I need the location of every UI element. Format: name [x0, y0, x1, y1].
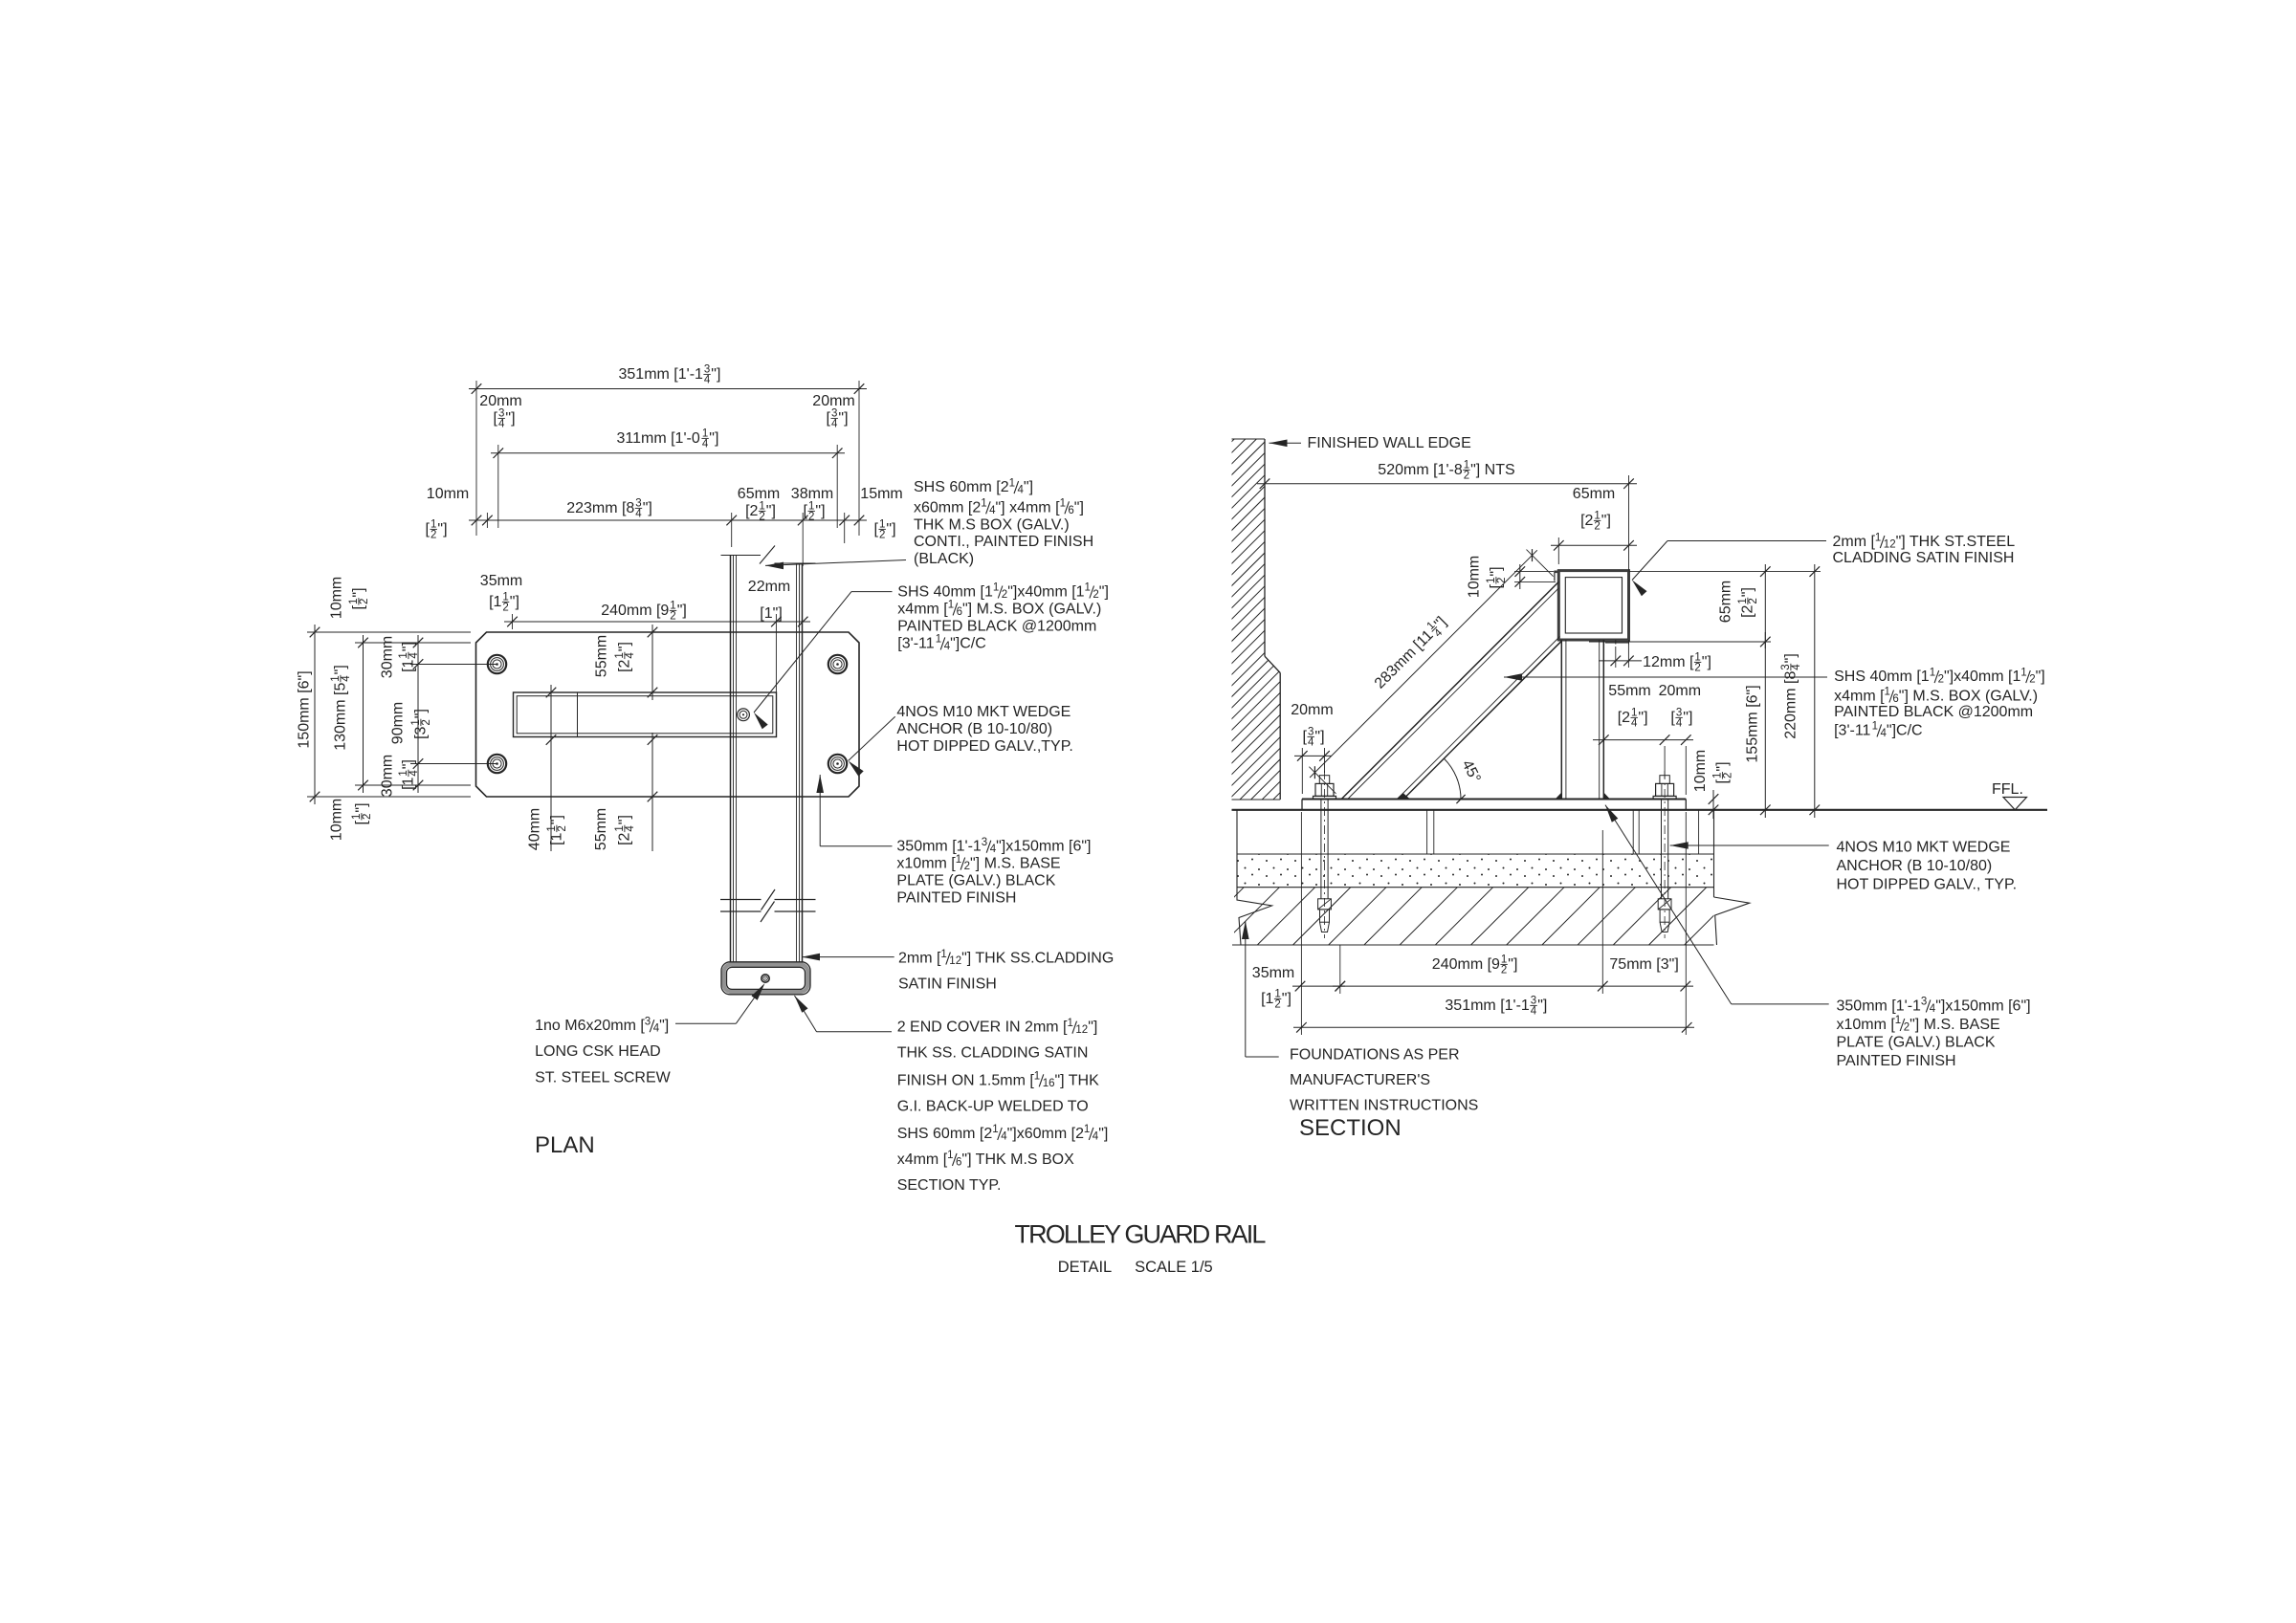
svg-text:PAINTED BLACK @1200mm: PAINTED BLACK @1200mm	[1834, 704, 2033, 720]
floor screed layer (section)	[1237, 810, 1714, 854]
svg-text:[: [	[351, 605, 367, 610]
PLAN title	[535, 1132, 595, 1158]
svg-text:90mm: 90mm	[390, 702, 407, 744]
svg-text:10mm: 10mm	[329, 577, 345, 619]
svg-text:1: 1	[1895, 1015, 1901, 1026]
svg-text:[: [	[1303, 729, 1308, 745]
weld fillet brace base	[1397, 793, 1411, 800]
svg-text:[1: [1	[549, 832, 565, 844]
label 30mm top (plan left)	[380, 636, 421, 678]
svg-text:[1: [1	[401, 777, 417, 789]
svg-text:SECTION: SECTION	[1299, 1115, 1402, 1141]
svg-text:1: 1	[956, 854, 961, 866]
dim 55/20 (section)	[1593, 683, 1701, 795]
svg-text:20mm: 20mm	[1659, 683, 1701, 699]
svg-text:FOUNDATIONS AS PER: FOUNDATIONS AS PER	[1290, 1047, 1460, 1064]
svg-text:4: 4	[704, 375, 711, 386]
svg-text:[: [	[426, 521, 430, 537]
svg-text:SCALE 1/5: SCALE 1/5	[1135, 1259, 1213, 1276]
svg-text:4: 4	[408, 652, 420, 659]
leader SHS40 (plan)	[754, 592, 893, 730]
svg-text:"] M.S. BOX (GALV.): "] M.S. BOX (GALV.)	[1899, 689, 2038, 705]
svg-text:[: [	[804, 503, 808, 519]
svg-text:[2: [2	[617, 832, 633, 844]
svg-text:[: [	[1714, 779, 1731, 784]
svg-text:HOT DIPPED GALV.,TYP.: HOT DIPPED GALV.,TYP.	[896, 738, 1072, 755]
anchor bolt plan bottom-right	[828, 755, 847, 773]
svg-text:2: 2	[1723, 773, 1734, 779]
svg-text:2: 2	[421, 719, 432, 725]
svg-text:"]: "]	[643, 500, 652, 516]
label 10mm top (plan left)	[329, 577, 371, 619]
label 65mm (plan)	[738, 486, 780, 523]
svg-text:SHS 40mm [1: SHS 40mm [1	[1834, 669, 1930, 685]
screw on brace (plan)	[738, 709, 750, 721]
dim chain 10/223/65/38/15 (plan)	[469, 513, 867, 566]
svg-text:35mm: 35mm	[1252, 965, 1294, 981]
svg-text:"]: "]	[549, 815, 565, 824]
svg-text:[3: [3	[413, 726, 430, 738]
text base plate block (plan)	[896, 837, 1091, 907]
svg-text:ANCHOR (B 10-10/80): ANCHOR (B 10-10/80)	[1837, 858, 1993, 874]
svg-text:20mm: 20mm	[812, 393, 854, 409]
dim 240mm / 22mm line (plan)	[504, 614, 810, 692]
dim 130mm (plan left)	[330, 635, 471, 793]
svg-text:"]: "]	[677, 603, 687, 619]
svg-text:"]: "]	[1537, 998, 1547, 1014]
svg-text:"]: "]	[617, 815, 633, 824]
dim 40mm (plan slot)	[527, 685, 569, 851]
svg-text:"]x150mm [6"]: "]x150mm [6"]	[1935, 998, 2030, 1014]
svg-text:[3'-11: [3'-11	[1834, 722, 1870, 738]
cladding bottom piece (section)	[1605, 640, 1629, 645]
dim 520mm (section)	[1257, 460, 1637, 571]
svg-text:4: 4	[635, 509, 642, 520]
svg-text:[2: [2	[617, 659, 633, 671]
svg-text:1: 1	[936, 634, 941, 646]
svg-text:"]: "]	[333, 665, 349, 674]
svg-text:[1: [1	[489, 594, 501, 610]
text end cover block (plan)	[897, 1018, 1109, 1194]
base plate (plan)	[476, 632, 860, 797]
end cover (plan)	[721, 962, 810, 995]
svg-text:3: 3	[1921, 997, 1927, 1008]
svg-text:CONTI., PAINTED FINISH: CONTI., PAINTED FINISH	[914, 534, 1093, 550]
svg-text:"]: "]	[413, 709, 430, 718]
svg-text:THK M.S BOX (GALV.): THK M.S BOX (GALV.)	[914, 516, 1070, 533]
svg-text:"]: "]	[617, 642, 633, 651]
svg-text:[2: [2	[745, 503, 758, 519]
svg-text:HOT DIPPED GALV., TYP.: HOT DIPPED GALV., TYP.	[1837, 877, 2018, 893]
svg-text:4: 4	[702, 439, 709, 450]
concrete slab hatch (section)	[1151, 888, 1778, 945]
brace SHS40 diagonal (section)	[1341, 581, 1561, 799]
svg-text:12: 12	[1075, 1024, 1088, 1036]
screw on end cover (plan)	[762, 975, 769, 982]
svg-text:40mm: 40mm	[527, 808, 543, 850]
svg-text:[1: [1	[401, 659, 417, 671]
svg-text:"]: "]	[709, 430, 718, 447]
svg-text:"]: "]	[886, 521, 895, 537]
leader 4NOS anchor (section)	[1670, 842, 1829, 849]
svg-text:4: 4	[1308, 737, 1314, 749]
svg-text:"]: "]	[401, 642, 417, 651]
text base plate (section)	[1837, 997, 2031, 1069]
svg-text:ST. STEEL SCREW: ST. STEEL SCREW	[535, 1069, 672, 1086]
text SHS40 block (plan)	[897, 582, 1109, 652]
svg-text:"]: "]	[1314, 729, 1324, 745]
text 4NOS block (plan)	[896, 704, 1072, 755]
brace SHS40 in plan (slot)	[514, 692, 777, 737]
svg-text:30mm: 30mm	[380, 636, 396, 678]
svg-text:"]: "]	[1740, 587, 1756, 597]
svg-text:351mm [1'-1: 351mm [1'-1	[619, 366, 704, 383]
svg-text:20mm: 20mm	[1291, 702, 1333, 718]
label 38mm (plan)	[791, 486, 833, 523]
svg-text:351mm [1'-1: 351mm [1'-1	[1445, 998, 1530, 1014]
svg-text:240mm [9: 240mm [9	[601, 603, 669, 619]
svg-text:PLATE (GALV.) BLACK: PLATE (GALV.) BLACK	[896, 873, 1055, 889]
svg-text:"]: "]	[1024, 479, 1033, 495]
text SHS40 brace (section)	[1834, 667, 2045, 739]
label 240mm (plan)	[601, 601, 687, 623]
svg-text:SECTION TYP.: SECTION TYP.	[897, 1177, 1002, 1194]
svg-text:12: 12	[949, 955, 961, 967]
svg-text:15mm: 15mm	[860, 486, 902, 502]
text SS cladding block (plan)	[898, 949, 1114, 993]
svg-text:16: 16	[1043, 1078, 1055, 1089]
svg-text:2: 2	[430, 530, 436, 541]
svg-text:"]: "]	[505, 410, 515, 427]
label 22mm (plan)	[748, 579, 790, 622]
dim 10mm plate thk (section)	[1692, 750, 1734, 819]
svg-text:PAINTED FINISH: PAINTED FINISH	[896, 890, 1016, 907]
svg-text:1no M6x20mm [: 1no M6x20mm [	[535, 1018, 645, 1034]
dim 150mm (plan left)	[297, 625, 472, 804]
svg-text:SHS 60mm [2: SHS 60mm [2	[897, 1126, 993, 1142]
slab break left	[1237, 810, 1272, 945]
leader finished wall edge	[1269, 440, 1302, 448]
svg-text:SATIN FINISH: SATIN FINISH	[898, 976, 997, 993]
leader 4NOS anchors (plan)	[849, 716, 895, 776]
dim 65mm right (section)	[1589, 564, 1771, 648]
svg-text:2: 2	[1594, 521, 1600, 533]
svg-text:SHS 40mm [1: SHS 40mm [1	[897, 584, 993, 601]
dim 12mm step (section)	[1599, 644, 1711, 674]
svg-text:[2: [2	[1580, 513, 1593, 529]
floor bedding dotted layer (section)	[1237, 854, 1714, 888]
dim 283mm along brace	[1309, 549, 1553, 794]
FFL marker	[1992, 781, 2027, 810]
svg-text:1: 1	[1034, 1071, 1040, 1083]
svg-text:4: 4	[408, 770, 420, 777]
svg-text:1: 1	[1875, 532, 1881, 543]
svg-text:(BLACK): (BLACK)	[914, 551, 974, 567]
svg-text:[1: [1	[1261, 991, 1273, 1007]
svg-text:1: 1	[948, 600, 954, 611]
svg-text:38mm: 38mm	[791, 486, 833, 502]
svg-text:4: 4	[625, 825, 636, 832]
svg-text:"] M.S. BASE: "] M.S. BASE	[1910, 1017, 2000, 1033]
drawing title	[1015, 1220, 1267, 1249]
svg-text:2: 2	[1274, 999, 1280, 1011]
rail SHS60 with cladding (plan) left faces	[731, 556, 737, 963]
svg-text:G.I. BACK-UP WELDED TO: G.I. BACK-UP WELDED TO	[897, 1098, 1089, 1114]
svg-text:"]: "]	[437, 521, 447, 537]
svg-text:SHS 60mm [2: SHS 60mm [2	[914, 479, 1009, 495]
text finished wall edge	[1308, 435, 1471, 451]
svg-text:x10mm [: x10mm [	[896, 856, 956, 872]
svg-text:FFL.: FFL.	[1992, 781, 2023, 798]
svg-text:1: 1	[940, 949, 946, 960]
svg-text:"]: "]	[1099, 584, 1109, 601]
label 10mm (plan left)	[426, 486, 470, 541]
SECTION title	[1299, 1115, 1402, 1141]
svg-text:FINISH ON 1.5mm [: FINISH ON 1.5mm [	[897, 1072, 1035, 1088]
svg-text:2: 2	[670, 611, 675, 623]
svg-text:20mm: 20mm	[479, 393, 521, 409]
svg-text:LONG CSK HEAD: LONG CSK HEAD	[535, 1043, 661, 1060]
svg-text:"]: "]	[1074, 499, 1084, 515]
weld fillets post base	[1556, 793, 1610, 800]
wall outline (section)	[1232, 439, 1281, 800]
svg-text:223mm [8: 223mm [8	[566, 500, 634, 516]
svg-text:130mm [5: 130mm [5	[333, 683, 349, 751]
leader st steel cladding (section)	[1632, 541, 1826, 597]
dim 311mm (plan)	[491, 428, 845, 528]
label 15mm (plan right)	[860, 486, 902, 541]
svg-text:1: 1	[1885, 687, 1890, 698]
label 90mm (plan left)	[390, 702, 433, 744]
svg-text:"]: "]	[815, 503, 825, 519]
svg-text:"]C/C: "]C/C	[1887, 722, 1923, 738]
svg-text:x60mm [2: x60mm [2	[914, 499, 981, 515]
leader SHS40 brace (section)	[1504, 673, 1827, 681]
svg-text:1: 1	[1872, 721, 1878, 733]
svg-text:4: 4	[1631, 718, 1638, 730]
rail top break line (plan)	[721, 546, 816, 564]
svg-text:311mm [1'-0: 311mm [1'-0	[617, 430, 700, 447]
svg-text:2: 2	[1464, 471, 1469, 482]
svg-text:"]: "]	[510, 594, 519, 610]
svg-text:1: 1	[1068, 1018, 1073, 1029]
svg-text:1: 1	[993, 582, 999, 594]
label 35mm (plan)	[480, 573, 522, 614]
svg-text:10mm: 10mm	[427, 486, 469, 502]
svg-text:[: [	[1670, 710, 1675, 726]
svg-text:ANCHOR (B 10-10/80): ANCHOR (B 10-10/80)	[896, 721, 1052, 737]
dim 240mm (section)	[1333, 830, 1693, 994]
svg-text:[: [	[874, 521, 879, 537]
svg-text:"]x40mm [1: "]x40mm [1	[1944, 669, 2020, 685]
svg-text:220mm [8: 220mm [8	[1783, 671, 1799, 739]
svg-text:150mm [6"]: 150mm [6"]	[297, 670, 313, 748]
svg-text:"]: "]	[1508, 956, 1517, 973]
svg-text:10mm: 10mm	[1467, 556, 1483, 598]
svg-text:3: 3	[982, 837, 987, 848]
svg-text:2: 2	[1748, 598, 1759, 603]
svg-text:"] M.S. BASE: "] M.S. BASE	[970, 856, 1061, 872]
svg-text:"]: "]	[354, 802, 370, 812]
svg-text:"]x60mm [2: "]x60mm [2	[1007, 1126, 1084, 1142]
label 30mm bottom (plan left)	[380, 755, 421, 797]
text foundations (section)	[1290, 1047, 1478, 1114]
svg-text:35mm: 35mm	[480, 573, 522, 589]
svg-text:4: 4	[625, 652, 636, 659]
label 223mm (plan)	[566, 498, 652, 520]
svg-text:2: 2	[759, 512, 764, 523]
svg-text:PAINTED FINISH: PAINTED FINISH	[1837, 1053, 1956, 1069]
wedge anchor right (section)	[1653, 771, 1676, 938]
svg-text:"]: "]	[1088, 1020, 1097, 1036]
svg-text:"] THK SS.CLADDING: "] THK SS.CLADDING	[961, 951, 1114, 967]
svg-text:"] THK: "] THK	[1055, 1072, 1100, 1088]
slab break right	[1714, 810, 1750, 945]
svg-text:4: 4	[341, 675, 352, 682]
svg-text:"]: "]	[659, 1018, 669, 1034]
dim 35mm (section)	[1252, 965, 1345, 1011]
svg-text:"]: "]	[1714, 761, 1731, 771]
svg-text:155mm [6"]: 155mm [6"]	[1745, 685, 1761, 762]
text SHS60 block (plan)	[914, 477, 1093, 567]
leader base plate (section)	[1605, 805, 1829, 1004]
svg-text:"] NTS: "] NTS	[1470, 462, 1515, 478]
wedge anchor left (section)	[1314, 771, 1336, 938]
svg-text:65mm: 65mm	[738, 486, 780, 502]
svg-text:2: 2	[1496, 578, 1508, 583]
svg-text:"]x150mm [6"]: "]x150mm [6"]	[996, 839, 1091, 855]
svg-text:PAINTED BLACK @1200mm: PAINTED BLACK @1200mm	[897, 618, 1096, 634]
svg-text:"]: "]	[1702, 654, 1711, 670]
post SHS40 (section)	[1561, 640, 1603, 800]
svg-text:4: 4	[831, 419, 838, 430]
dim 20mm left (plan)	[479, 393, 521, 430]
svg-text:"]: "]	[401, 759, 417, 769]
svg-text:x4mm [: x4mm [	[897, 1151, 948, 1168]
anchor bolt plan bottom-left	[488, 755, 506, 773]
text st steel cladding (section)	[1833, 532, 2016, 566]
svg-text:65mm: 65mm	[1718, 581, 1734, 623]
svg-text:4NOS M10 MKT WEDGE: 4NOS M10 MKT WEDGE	[896, 704, 1071, 720]
svg-text:1: 1	[1060, 498, 1066, 510]
svg-text:"]: "]	[1683, 710, 1692, 726]
dim 20mm bolt offset (section)	[1291, 702, 1333, 794]
svg-text:2: 2	[557, 825, 568, 831]
svg-text:"]x40mm [1: "]x40mm [1	[1007, 584, 1084, 601]
anchor bolt plan top-right	[828, 655, 847, 673]
svg-text:2: 2	[879, 530, 885, 541]
svg-text:75mm [3"]: 75mm [3"]	[1609, 956, 1678, 973]
svg-text:"]: "]	[766, 503, 776, 519]
svg-text:1: 1	[1009, 477, 1015, 489]
svg-text:PLATE (GALV.) BLACK: PLATE (GALV.) BLACK	[1837, 1034, 1996, 1050]
svg-text:1: 1	[947, 1150, 953, 1161]
text M6 screw block (plan)	[535, 1016, 672, 1086]
svg-text:55mm: 55mm	[1608, 683, 1650, 699]
svg-text:"]: "]	[1638, 710, 1647, 726]
svg-text:"]: "]	[1282, 991, 1291, 1007]
svg-text:1: 1	[1085, 582, 1091, 594]
svg-text:FINISHED WALL EDGE: FINISHED WALL EDGE	[1308, 435, 1471, 451]
svg-text:MANUFACTURER'S: MANUFACTURER'S	[1290, 1072, 1430, 1088]
dim 351mm (section)	[1293, 812, 1694, 1035]
svg-text:12mm [: 12mm [	[1643, 654, 1694, 670]
svg-text:2mm [: 2mm [	[1833, 534, 1876, 550]
svg-text:[: [	[354, 821, 370, 825]
svg-text:1: 1	[981, 498, 986, 510]
svg-text:2: 2	[362, 814, 373, 820]
wall hatch lines	[850, 439, 1656, 801]
svg-text:2: 2	[1501, 965, 1507, 976]
svg-text:[2: [2	[1618, 710, 1630, 726]
svg-text:55mm: 55mm	[594, 635, 610, 677]
svg-text:"]: "]	[711, 366, 720, 383]
svg-text:[1"]: [1"]	[760, 605, 782, 622]
svg-text:10mm: 10mm	[1692, 750, 1709, 792]
svg-text:[: [	[1489, 584, 1505, 589]
svg-text:520mm [1'-8: 520mm [1'-8	[1378, 462, 1463, 478]
dim 220mm (section)	[1629, 564, 1821, 818]
dim 20mm right (plan)	[812, 393, 854, 430]
svg-text:"]: "]	[1783, 653, 1799, 663]
base plate (section)	[1302, 800, 1686, 810]
FFL line	[1232, 809, 2048, 811]
rail SHS60 cut square (section)	[1555, 571, 1629, 640]
svg-text:"] M.S. BOX (GALV.): "] M.S. BOX (GALV.)	[962, 601, 1101, 617]
svg-text:350mm [1'-1: 350mm [1'-1	[896, 839, 982, 855]
svg-text:PLAN: PLAN	[535, 1132, 595, 1158]
svg-text:CLADDING SATIN FINISH: CLADDING SATIN FINISH	[1833, 550, 2015, 566]
svg-text:[2: [2	[1740, 604, 1756, 617]
dim 155mm (section)	[1745, 632, 1771, 818]
dim 351mm (plan overall width)	[469, 364, 867, 536]
svg-text:"] THK M.S BOX: "] THK M.S BOX	[961, 1151, 1074, 1168]
dim 65mm top (section)	[1551, 486, 1637, 564]
rail SHS60 with cladding (plan) right faces	[797, 563, 803, 962]
leader end cover (plan)	[795, 996, 893, 1032]
label 10mm bottom (plan left)	[329, 799, 374, 841]
svg-text:30mm: 30mm	[380, 755, 396, 797]
svg-text:x4mm [: x4mm [	[1834, 689, 1885, 705]
svg-text:[3'-11: [3'-11	[897, 635, 934, 651]
svg-text:"] x4mm [: "] x4mm [	[996, 499, 1061, 515]
svg-text:"]: "]	[2036, 669, 2045, 685]
svg-text:"]: "]	[1489, 566, 1505, 576]
svg-text:3: 3	[645, 1016, 651, 1027]
dim 30/90/30 (plan left)	[410, 635, 497, 793]
svg-text:2: 2	[502, 603, 508, 614]
svg-text:12: 12	[1884, 539, 1896, 551]
svg-text:"]: "]	[838, 410, 848, 427]
svg-text:22mm: 22mm	[748, 579, 790, 595]
svg-text:DETAIL: DETAIL	[1058, 1259, 1113, 1276]
svg-text:55mm: 55mm	[593, 808, 609, 850]
leader base plate (plan)	[816, 775, 892, 846]
rail lower break (plan)	[720, 889, 816, 922]
anchor bolt plan top-left	[488, 655, 506, 673]
label 75mm (section)	[1609, 956, 1678, 973]
svg-text:"]: "]	[351, 587, 367, 597]
svg-text:4: 4	[1676, 718, 1683, 730]
svg-text:2: 2	[808, 512, 814, 523]
svg-text:1: 1	[1930, 667, 1935, 678]
svg-text:2 END COVER IN 2mm [: 2 END COVER IN 2mm [	[897, 1020, 1068, 1036]
svg-text:4: 4	[1791, 664, 1802, 670]
svg-text:1: 1	[2020, 667, 2026, 678]
svg-text:2mm [: 2mm [	[898, 951, 941, 967]
svg-text:4NOS M10 MKT WEDGE: 4NOS M10 MKT WEDGE	[1837, 840, 2011, 856]
svg-text:2: 2	[1694, 663, 1700, 674]
